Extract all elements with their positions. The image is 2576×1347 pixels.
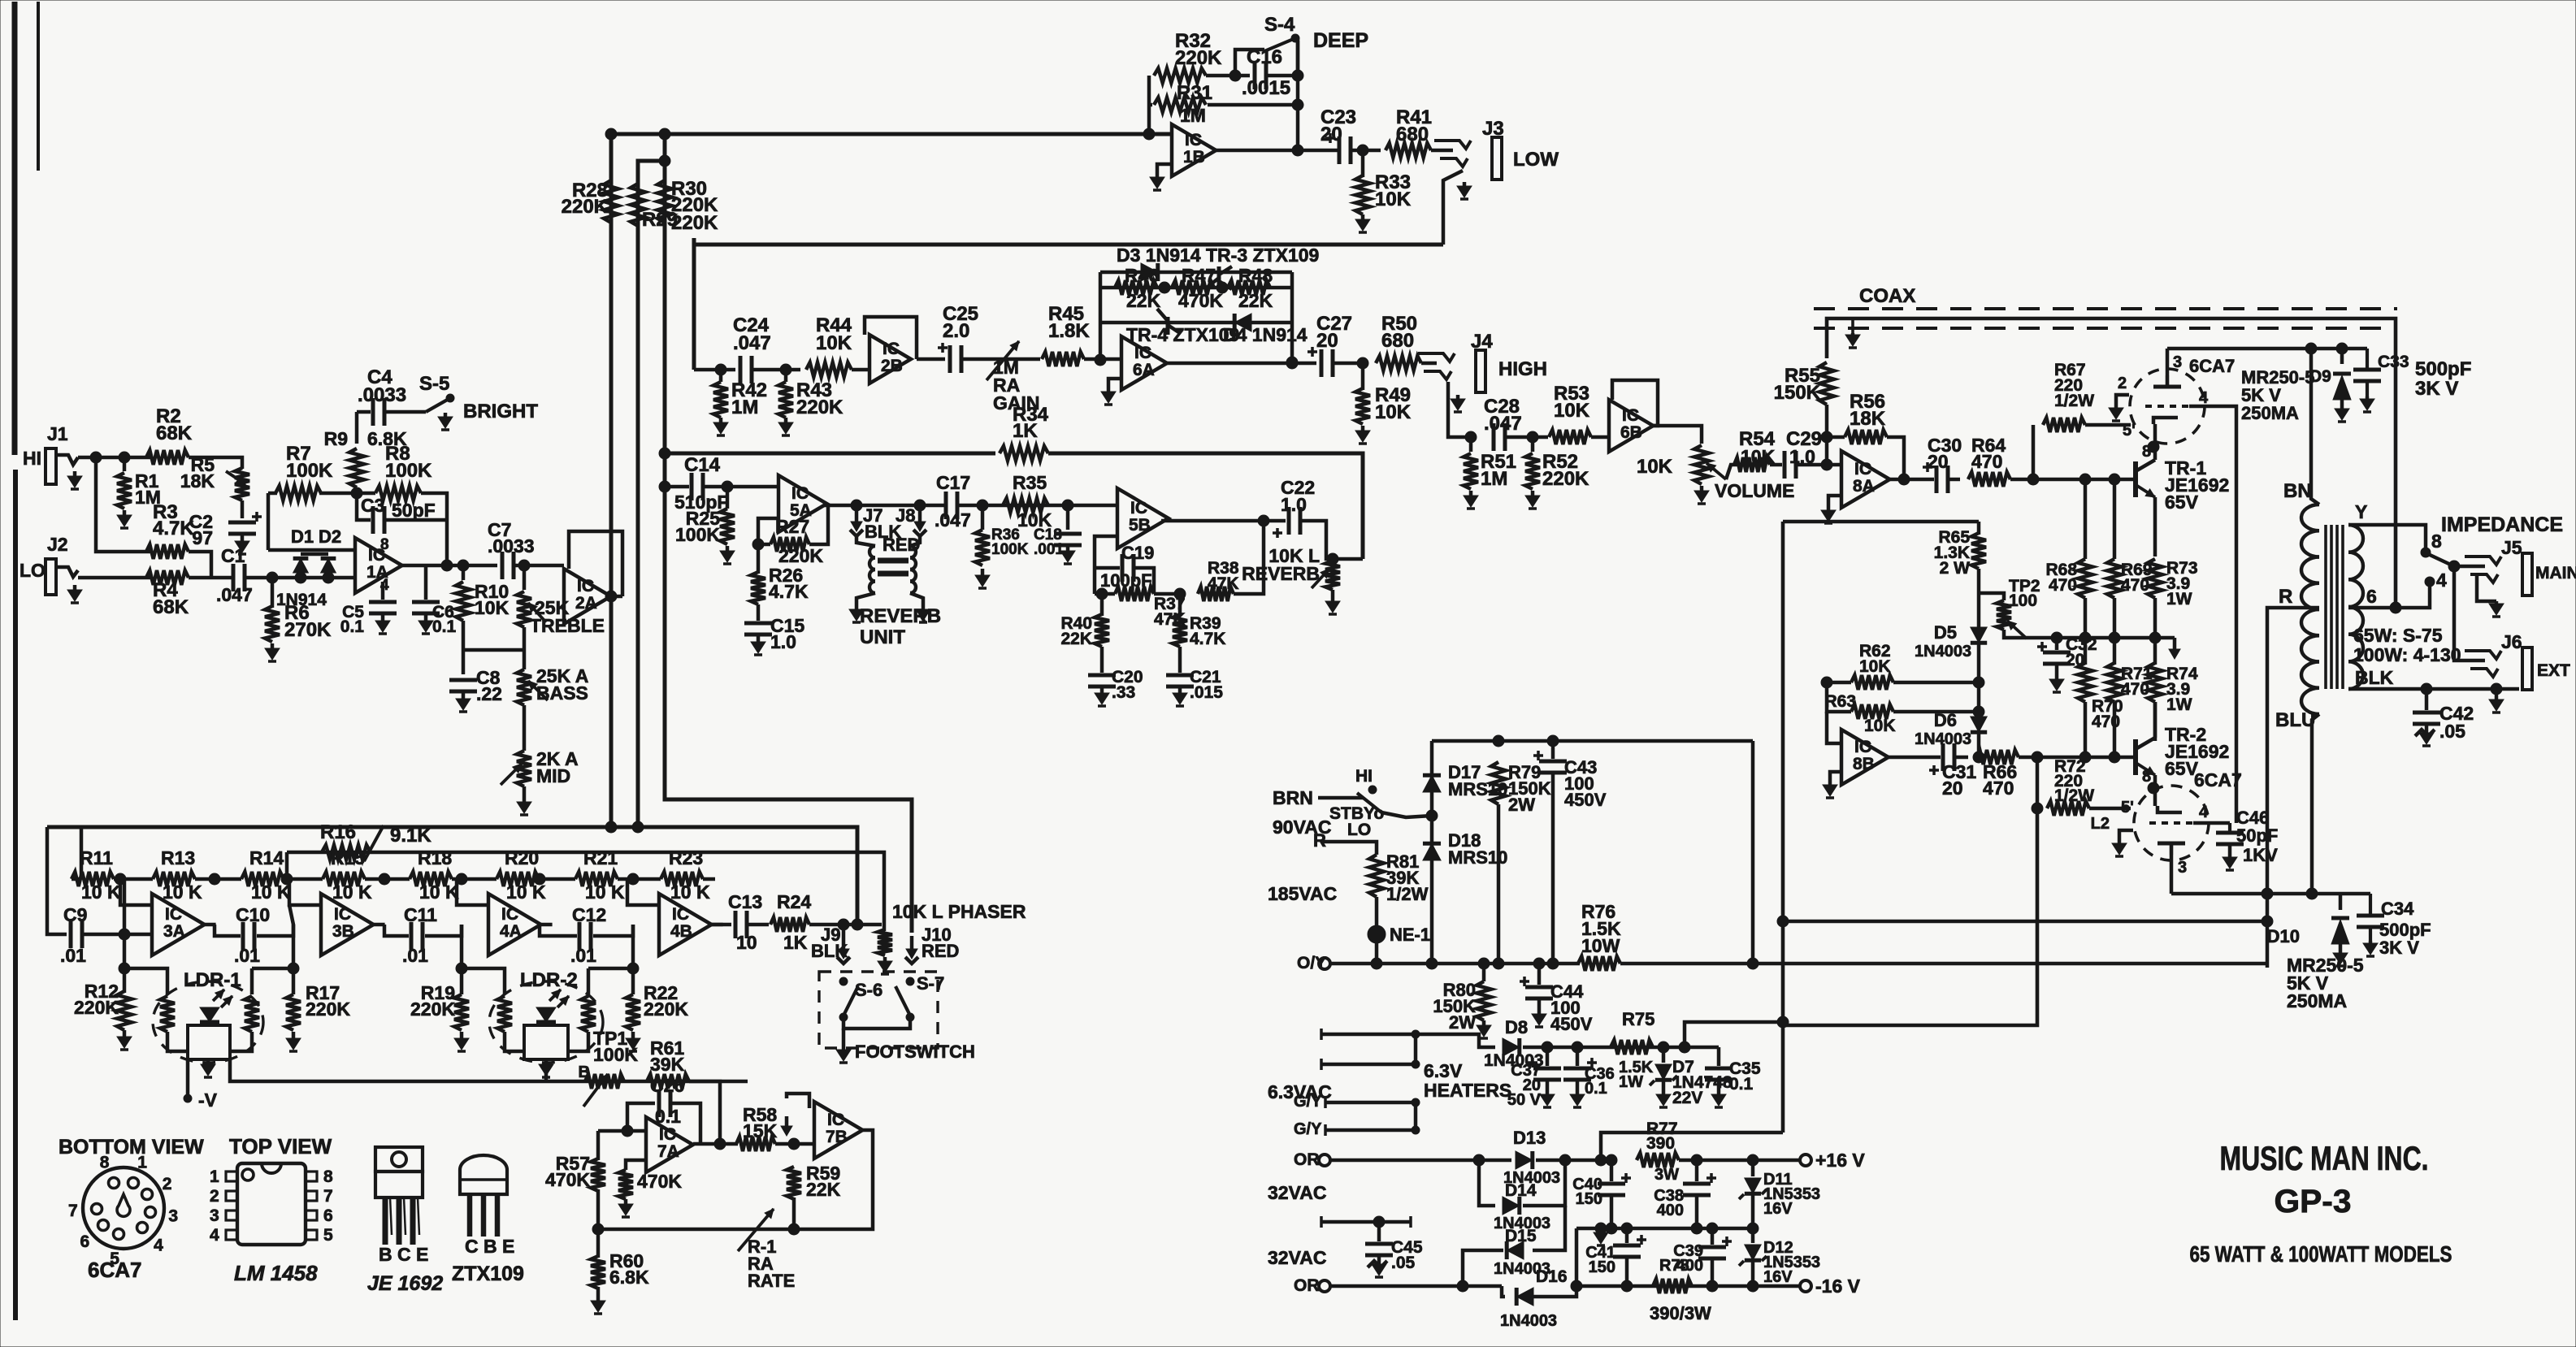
wire R16 run xyxy=(287,852,884,931)
wire C14 row xyxy=(665,485,689,489)
wire R7 seg b xyxy=(319,492,375,496)
capacitor C3 xyxy=(373,506,384,534)
svg-text:7B: 7B xyxy=(826,1128,848,1146)
ground S-5 xyxy=(438,413,453,430)
label R18 xyxy=(418,847,452,868)
junction H1 BLU xyxy=(2306,888,2318,899)
resistor R8 xyxy=(375,486,421,500)
label C9 xyxy=(63,904,87,925)
diode D12 xyxy=(1745,1245,1761,1260)
label D16 xyxy=(1536,1267,1568,1286)
label R54 value xyxy=(1741,446,1776,467)
svg-text:+16 V: +16 V xyxy=(1815,1150,1865,1171)
junction pot top xyxy=(1327,553,1338,565)
junction C39 top xyxy=(1706,1223,1718,1234)
wire R65 to D5 xyxy=(1977,569,1981,627)
label C39 xyxy=(1673,1242,1703,1275)
junction D14 feed xyxy=(1473,1154,1485,1166)
svg-text:6CA7: 6CA7 xyxy=(2194,769,2242,790)
label TP1 xyxy=(593,1028,638,1065)
resistor R24 xyxy=(770,917,809,932)
capacitor C4 xyxy=(373,398,384,426)
label JE1692 xyxy=(367,1272,443,1295)
resistor R6 xyxy=(265,606,280,642)
resistor R26 xyxy=(751,572,765,604)
wire R1 drop xyxy=(123,457,127,471)
wire S-4 box xyxy=(1235,50,1264,76)
resistor R31 xyxy=(1154,97,1206,112)
junction lattice right bottom xyxy=(1286,357,1298,368)
label C12 xyxy=(572,904,606,925)
svg-text:1.0: 1.0 xyxy=(1281,494,1307,515)
wire LDR2 box to rail xyxy=(544,1059,549,1081)
svg-text:BOTTOM VIEW: BOTTOM VIEW xyxy=(59,1136,204,1159)
label D10 part xyxy=(2287,955,2364,1011)
label R17 xyxy=(306,982,350,1020)
svg-text:L2: L2 xyxy=(2091,815,2110,833)
wire IC2B out xyxy=(917,357,945,362)
wire R61 right xyxy=(689,1081,720,1144)
wire J1 to R2 xyxy=(78,456,151,460)
junction mid R68 xyxy=(2079,632,2091,643)
capacitor C6 xyxy=(412,602,440,613)
resistor R71 xyxy=(2107,663,2122,702)
svg-text:3W: 3W xyxy=(1654,1166,1679,1184)
svg-text:S-5: S-5 xyxy=(419,373,449,395)
svg-text:D15: D15 xyxy=(1505,1227,1537,1245)
ground R52 xyxy=(1525,491,1540,509)
label V1 pin5 xyxy=(2123,422,2136,440)
reverb core xyxy=(878,561,909,574)
wire C31 to R66 xyxy=(1955,756,1968,760)
wire D1 D2 tops xyxy=(301,552,328,557)
wire H2 run xyxy=(1783,920,2267,924)
svg-text:8: 8 xyxy=(323,1167,333,1186)
svg-text:185VAC: 185VAC xyxy=(1268,883,1337,904)
ground C8 xyxy=(456,692,471,712)
svg-text:470: 470 xyxy=(1983,777,2014,799)
wire D9 drop xyxy=(2340,349,2344,364)
wire D11 drop xyxy=(1751,1160,1755,1176)
resistor R49 xyxy=(1355,388,1370,424)
junction R17 top xyxy=(288,963,299,974)
resistor R75 xyxy=(1611,1040,1653,1055)
wire R16 stub xyxy=(285,852,289,879)
wire R52 drop xyxy=(1531,437,1535,452)
ground C45 xyxy=(1368,1256,1387,1277)
svg-text:150: 150 xyxy=(1589,1258,1615,1276)
resistor R80 xyxy=(1477,981,1491,1020)
capacitor C17 xyxy=(946,492,957,519)
op-amp IC5B xyxy=(1117,488,1169,548)
label R8 xyxy=(385,443,432,482)
svg-text:1N914: 1N914 xyxy=(276,591,327,609)
svg-text:470: 470 xyxy=(1971,451,2002,472)
capacitor C8 xyxy=(449,680,477,691)
wire R38 right xyxy=(1234,521,1264,594)
wire R67 to pin5 xyxy=(2085,423,2131,427)
transformer core xyxy=(2326,525,2343,689)
ground C6 xyxy=(418,614,433,634)
svg-text:D8: D8 xyxy=(1505,1017,1528,1037)
resistor R40 xyxy=(1095,614,1109,647)
label R27 value xyxy=(778,545,823,566)
wire D16 jog xyxy=(1502,1286,1505,1297)
ground MID xyxy=(517,798,531,815)
wire ladder e xyxy=(365,877,410,881)
label V1 pin2 xyxy=(2118,375,2127,392)
wire ladder g xyxy=(539,877,575,881)
junction J1 node a xyxy=(90,452,102,463)
label C46 xyxy=(2236,808,2269,828)
op-amp IC1B xyxy=(1172,124,1216,176)
svg-text:3: 3 xyxy=(2178,859,2187,877)
ground R19 xyxy=(454,1032,469,1051)
label C3 xyxy=(361,495,384,516)
label R50 xyxy=(1381,313,1417,352)
label R72 xyxy=(2054,757,2094,805)
svg-text:.05: .05 xyxy=(2439,721,2465,742)
wire D12 bottom xyxy=(1751,1261,1755,1286)
capacitor C25 xyxy=(938,343,961,373)
wire IC6B out xyxy=(1653,426,1702,444)
svg-text:3: 3 xyxy=(168,1207,178,1226)
wire D9 gnd xyxy=(2340,400,2344,406)
svg-text:400: 400 xyxy=(1657,1202,1684,1219)
junction R42 top xyxy=(715,364,726,375)
label R53 xyxy=(1554,383,1590,422)
svg-text:C13: C13 xyxy=(728,891,762,912)
label R60 xyxy=(609,1250,649,1288)
svg-text:LDR-2: LDR-2 xyxy=(520,969,578,991)
capacitor C11 xyxy=(411,922,423,950)
label 4 xyxy=(2436,570,2447,591)
wire coil right leg xyxy=(910,593,923,606)
label D14 xyxy=(1505,1181,1537,1200)
svg-text:7: 7 xyxy=(68,1202,78,1220)
label R14 xyxy=(249,847,284,868)
wire R27 row right xyxy=(809,505,828,544)
svg-text:6B: 6B xyxy=(1620,423,1642,442)
capacitor C10 xyxy=(243,922,254,950)
junction bus2 node xyxy=(852,919,863,930)
label S-5 xyxy=(419,373,449,395)
label pin8 xyxy=(380,536,389,553)
switch S-5 xyxy=(426,394,454,412)
label C33 xyxy=(2378,353,2409,371)
wire fb right vertical xyxy=(1296,41,1300,150)
junction R67 drop xyxy=(2027,474,2039,485)
svg-text:7A: 7A xyxy=(657,1142,679,1161)
junction R39 top xyxy=(1174,588,1186,600)
ground C44 xyxy=(1532,1011,1546,1027)
junction D6 wire xyxy=(1973,751,1984,763)
label PHASER pot xyxy=(892,901,1026,922)
svg-text:S-7: S-7 xyxy=(917,973,944,994)
label R67 xyxy=(2054,361,2094,410)
svg-text:4.7K: 4.7K xyxy=(769,581,809,602)
ground 470K bias xyxy=(618,1199,633,1217)
wire R65 chain xyxy=(1977,522,1981,535)
wire C43 bottom xyxy=(1551,773,1555,964)
label C19 value xyxy=(1100,570,1152,591)
junction bus1 top xyxy=(605,128,617,140)
capacitor C20 xyxy=(1088,675,1116,686)
capacitor C31 xyxy=(1929,743,1954,775)
ground R43 xyxy=(778,418,793,435)
wire R31 row xyxy=(1149,103,1152,107)
svg-text:3A: 3A xyxy=(163,922,185,941)
svg-text:1N4003: 1N4003 xyxy=(1915,643,1971,661)
label C8 xyxy=(476,667,502,704)
resistor R53 xyxy=(1549,430,1591,444)
wire D13 right xyxy=(1536,1159,1601,1163)
resistor R52 xyxy=(1525,453,1540,489)
junction R60 top xyxy=(592,1224,604,1235)
svg-text:.0033: .0033 xyxy=(358,384,406,406)
op-amp IC3B xyxy=(321,894,374,955)
neon NE-1 xyxy=(1368,925,1386,943)
photoresistor LDR-2b xyxy=(581,996,596,1032)
wire TR2 emitter down xyxy=(2153,775,2158,806)
wire C5 drop xyxy=(381,582,385,600)
wire S-4 to fb right xyxy=(1295,41,1298,76)
junction J6 gnd xyxy=(2491,683,2502,695)
svg-text:IC: IC xyxy=(672,905,689,924)
svg-text:BLK: BLK xyxy=(2355,667,2394,688)
diode D15 xyxy=(1507,1241,1524,1259)
wire D6 bottom xyxy=(1977,733,1981,757)
wire C41 drop xyxy=(1625,1228,1629,1243)
label C14 value xyxy=(674,492,728,513)
label C37 xyxy=(1507,1062,1542,1109)
wire C11 right xyxy=(425,925,462,936)
label C4 xyxy=(367,366,392,388)
svg-text:LO: LO xyxy=(20,560,46,581)
resistor R21 xyxy=(575,872,618,886)
label R23 xyxy=(669,847,703,868)
svg-text:6: 6 xyxy=(2366,586,2377,607)
ground R60 xyxy=(591,1297,605,1314)
wire C35 gnd xyxy=(1717,1081,1721,1092)
label 6.3VAC xyxy=(1268,1081,1332,1102)
wire LDR1 right feed xyxy=(250,968,254,994)
svg-text:10 K: 10 K xyxy=(419,881,459,903)
LDR-1 dashed ellipse xyxy=(153,981,263,1063)
svg-text:220K: 220K xyxy=(671,212,718,234)
svg-text:D5: D5 xyxy=(1934,622,1957,643)
label R terminal xyxy=(1313,830,1326,851)
wire R7 seg a xyxy=(268,492,277,496)
ground coax shield xyxy=(1845,318,1860,348)
label C42 xyxy=(2439,703,2474,742)
capacitor C30 xyxy=(1923,462,1948,493)
label R40 xyxy=(1060,614,1092,648)
wire R33 vertical xyxy=(1361,150,1365,177)
label R32 xyxy=(1175,30,1222,69)
junction bus2 jog xyxy=(659,155,670,167)
switch STBY arm xyxy=(1357,793,1381,812)
wire lv mid xyxy=(1576,1227,1753,1231)
svg-text:HIGH: HIGH xyxy=(1498,358,1547,380)
resistor R42 xyxy=(713,382,728,418)
label R61 xyxy=(650,1037,685,1075)
plug J7 xyxy=(850,509,863,536)
label C7 xyxy=(488,519,535,557)
svg-text:C1: C1 xyxy=(221,545,245,566)
ground IC1B xyxy=(1150,174,1164,190)
svg-text:RED: RED xyxy=(922,941,959,961)
label C33 value xyxy=(2415,358,2471,400)
capacitor C34 xyxy=(2357,894,2384,941)
label D4 xyxy=(1223,324,1308,345)
label S-6 xyxy=(855,980,883,1000)
label R81 xyxy=(1386,851,1429,904)
label V2 pin8 xyxy=(2142,768,2151,786)
wire ladder i xyxy=(703,877,715,881)
resistor R1 xyxy=(117,473,132,509)
svg-text:MID: MID xyxy=(536,765,570,786)
label heaters xyxy=(1424,1060,1511,1101)
junction IC8A out xyxy=(1898,474,1910,485)
label R33 xyxy=(1375,171,1412,210)
svg-text:2W: 2W xyxy=(1508,795,1535,815)
junction R59 top xyxy=(788,1138,800,1150)
wire R58 to IC7B xyxy=(775,1142,814,1146)
label RED xyxy=(883,535,920,555)
svg-text:IC: IC xyxy=(1134,344,1151,362)
ground reverb left xyxy=(849,606,864,622)
label VOLUME xyxy=(1715,480,1794,501)
resistor R20 xyxy=(497,872,539,886)
diode D4 xyxy=(1234,314,1251,331)
wire R40 drop xyxy=(1100,594,1104,616)
wire ladder h xyxy=(618,877,661,881)
svg-text:C3: C3 xyxy=(361,495,384,516)
wire C30 to R64 xyxy=(1949,478,1960,482)
wire ladder a xyxy=(72,877,81,881)
wire LDR1 left feed xyxy=(124,968,167,994)
label C25 xyxy=(943,303,978,342)
resistor R11 xyxy=(72,872,114,886)
diode D13 xyxy=(1516,1151,1533,1169)
wire R tap xyxy=(2267,608,2319,968)
svg-text:D10: D10 xyxy=(2267,926,2300,946)
svg-text:LM 1458: LM 1458 xyxy=(234,1261,318,1285)
wire D5 to D6 xyxy=(1977,643,1981,717)
wire IC8A out xyxy=(1890,478,1934,482)
svg-text:.001: .001 xyxy=(1034,541,1064,558)
label R68 xyxy=(2045,561,2077,595)
wire bias up xyxy=(1685,1022,1783,1047)
svg-text:2B: 2B xyxy=(881,357,903,375)
svg-text:J3: J3 xyxy=(1482,118,1504,140)
diode D17 xyxy=(1423,775,1441,792)
capacitor C23 xyxy=(1325,133,1351,164)
wire C36 gnd xyxy=(1576,1081,1580,1092)
wire R69 drop xyxy=(2113,479,2117,559)
label R11 xyxy=(80,847,113,868)
junction 2194 1258 xyxy=(1777,1016,1789,1028)
resistor R23 xyxy=(661,872,703,886)
svg-text:1W: 1W xyxy=(2166,695,2192,714)
junction D7 top xyxy=(1658,1042,1669,1053)
svg-text:B: B xyxy=(579,1063,590,1081)
wire R56 left xyxy=(1827,435,1845,440)
wire 6 tap xyxy=(2348,587,2430,608)
svg-text:50 V: 50 V xyxy=(1507,1091,1542,1109)
resistor R39 xyxy=(1173,614,1187,647)
wire R81 to NE1 xyxy=(1375,897,1379,926)
tube V1 grid xyxy=(2145,405,2189,408)
label C44 xyxy=(1550,981,1593,1034)
label R58 xyxy=(743,1104,778,1141)
label MAIN xyxy=(2535,564,2576,583)
resistor R13 xyxy=(153,872,195,886)
wire R26 drop xyxy=(757,544,761,574)
label R27 xyxy=(775,516,809,537)
svg-text:22K: 22K xyxy=(1060,630,1092,648)
heater line 3 xyxy=(1325,1097,1420,1108)
svg-text:D4 1N914: D4 1N914 xyxy=(1223,324,1308,345)
label D3 xyxy=(1117,245,1201,266)
ground C33 xyxy=(2360,396,2374,412)
capacitor C28 xyxy=(1494,423,1505,451)
ground REVERB pot xyxy=(1325,598,1340,614)
capacitor C36 xyxy=(1563,1058,1597,1080)
svg-text:20: 20 xyxy=(1316,330,1338,352)
junction R9 bottom xyxy=(351,487,362,499)
junction C22 left xyxy=(1258,515,1269,526)
wire R19 feed xyxy=(460,936,464,994)
wire IC4A minus feed xyxy=(457,879,488,905)
junction R46-R47 xyxy=(1159,282,1170,293)
svg-text:10K: 10K xyxy=(1375,401,1412,423)
label MID xyxy=(536,748,579,786)
diode D9 xyxy=(2333,374,2351,400)
wire C18 drop xyxy=(1066,505,1070,530)
junction bus2 phaser xyxy=(632,821,644,833)
label J3 xyxy=(1482,118,1504,140)
label R54 xyxy=(1739,428,1776,450)
label R71 xyxy=(2121,665,2153,699)
op-amp IC3A xyxy=(152,894,205,955)
terminal +16V xyxy=(1800,1150,1865,1171)
capacitor C45 xyxy=(1365,1244,1393,1255)
diode D2 xyxy=(321,558,336,573)
label R13 xyxy=(161,847,195,868)
junction volume node xyxy=(1821,459,1832,470)
wire C12 jog xyxy=(540,925,577,936)
label C2 xyxy=(189,511,213,548)
wire B+ rail xyxy=(2167,347,2367,351)
svg-text:R9: R9 xyxy=(324,428,348,449)
wire +16 top rail xyxy=(1783,520,1979,524)
capacitor C5 xyxy=(369,602,397,613)
wire C43 top run xyxy=(1432,739,1753,743)
wire LDR1 right link xyxy=(252,936,293,968)
label R78 value xyxy=(1650,1303,1711,1323)
label 32VAC b xyxy=(1268,1247,1326,1268)
wire R8 right xyxy=(421,493,447,565)
label S-7 xyxy=(917,973,944,994)
wire NE1 down xyxy=(1375,942,1379,964)
junction ladder 779 xyxy=(627,873,639,885)
junction ladder 473 xyxy=(379,873,390,885)
resistor R27 xyxy=(770,537,809,552)
junction J9 node xyxy=(838,919,849,930)
label BCE xyxy=(379,1244,428,1265)
